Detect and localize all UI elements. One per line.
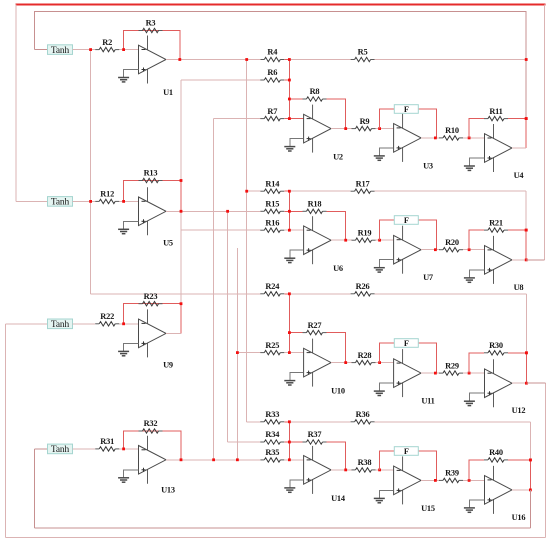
svg-text:R29: R29 <box>445 361 459 370</box>
wire R38 to U15 inverting input <box>376 469 394 471</box>
wire left vertical to Tanh4 <box>33 449 35 528</box>
wire U8 output to right border <box>526 259 545 261</box>
resistor R35 <box>260 448 284 462</box>
wire U15 input to F box <box>380 451 395 470</box>
wire U12 + input to ground <box>469 393 484 401</box>
wire U7 + input to ground <box>379 260 393 268</box>
svg-text:R18: R18 <box>308 200 322 209</box>
svg-text:F: F <box>404 447 409 456</box>
svg-text:U2: U2 <box>333 153 343 162</box>
svg-text:Tanh: Tanh <box>51 46 70 56</box>
svg-text:R40: R40 <box>489 448 503 457</box>
wire left outer vertical to Tanh3 <box>5 324 7 538</box>
svg-text:R17: R17 <box>356 179 370 188</box>
wire to R25 <box>237 352 260 354</box>
wire R17 to right corner <box>375 190 527 192</box>
wire U5 out to R6 <box>181 79 260 81</box>
junctions Tanh1 out / U1 summing <box>89 48 125 51</box>
wire U16 output down to bottom loop <box>529 490 531 528</box>
junctions R30 net / U12 output <box>525 351 528 384</box>
resistor R5 <box>351 48 375 62</box>
wire R13 feedback loop <box>124 181 181 212</box>
wire U2 + input to ground <box>290 139 304 147</box>
wire U6 output to R19 <box>331 239 352 241</box>
wire R6 to summing node <box>284 79 289 81</box>
wire summing node to R36 <box>289 421 350 423</box>
ground U10 <box>284 381 295 385</box>
svg-text:R31: R31 <box>100 437 114 446</box>
wire U10 + input to ground <box>290 373 304 381</box>
ground U7 <box>374 268 385 272</box>
wire R21 to right vertical <box>508 229 526 231</box>
svg-text:U1: U1 <box>163 88 173 97</box>
wire summing to R18 <box>289 210 302 212</box>
wire U15 + input to ground <box>379 490 393 498</box>
resistor R22 <box>95 312 119 326</box>
svg-text:R19: R19 <box>358 228 372 237</box>
resistor R39 <box>439 469 463 483</box>
wire R8 to U2 output <box>327 99 346 129</box>
wire R28 to U11 inverting input <box>376 362 394 364</box>
resistor R21 <box>484 218 508 232</box>
junctions U6 summing node <box>288 190 291 232</box>
svg-text:R16: R16 <box>265 218 279 227</box>
resistor R34 <box>260 430 284 444</box>
svg-text:R8: R8 <box>310 87 320 96</box>
resistor R30 <box>484 341 508 355</box>
svg-text:R7: R7 <box>267 107 277 116</box>
junction U9 summing <box>122 322 125 325</box>
svg-text:R21: R21 <box>489 218 503 227</box>
svg-text:U14: U14 <box>331 494 346 503</box>
junctions U7 output / U8 input <box>434 248 471 251</box>
wire R26 to right corner <box>375 293 527 295</box>
U11 block F <box>394 339 418 348</box>
wire bus Tanh1 output down <box>90 50 92 294</box>
junctions U1 output / R5 net <box>178 58 527 61</box>
svg-text:R23: R23 <box>144 292 158 301</box>
wire bottom inner (U16 out to Tanh4) <box>34 527 530 529</box>
junctions U5 output net / R14 feed <box>180 179 249 213</box>
svg-text:R30: R30 <box>489 341 503 350</box>
svg-text:U7: U7 <box>423 273 433 282</box>
wire U10 output to R28 <box>331 362 352 364</box>
wire U2 output to R9 <box>331 128 352 130</box>
wire R20 to U8 inverting input <box>463 249 485 251</box>
wire bottom border (to Tanh3) <box>6 536 546 538</box>
wire U8 + input to ground <box>469 270 484 278</box>
resistor R7 <box>260 107 284 121</box>
svg-text:U15: U15 <box>421 504 435 513</box>
junctions U3 output / U4 input <box>434 137 471 140</box>
Tanh1 input block <box>48 45 73 56</box>
wire U14 + input to ground <box>290 480 304 488</box>
wire R9 to U3 inverting input <box>376 128 394 130</box>
wire summing to R37 <box>289 441 302 443</box>
wire row1 feedback loop U4 out to Tanh1 <box>34 11 526 59</box>
ground U4 <box>464 166 475 170</box>
wire R30 feedback riser <box>469 353 484 373</box>
resistor R25 <box>260 341 284 355</box>
svg-text:R22: R22 <box>100 312 114 321</box>
resistor R23 <box>139 292 163 306</box>
wire R25 to U10 inverting input <box>284 352 303 354</box>
wire Tanh1 bus to R24 <box>91 293 261 295</box>
wire right vertical to U4 output <box>525 119 527 148</box>
wire U3 + input to ground <box>379 148 393 156</box>
Tanh4 input block <box>48 444 73 455</box>
ground U9 <box>118 351 129 355</box>
junctions Tanh2 out / U5 summing <box>89 200 125 203</box>
wire U9 + input to ground <box>124 343 139 351</box>
wire U7 input to F box <box>380 220 395 240</box>
svg-text:U13: U13 <box>161 486 175 495</box>
wire F box to U3 output <box>418 109 436 138</box>
wire R21 feedback riser <box>469 230 484 250</box>
ground U15 <box>374 498 385 502</box>
junction R11 feedback net <box>525 117 528 120</box>
resistor R24 <box>260 282 284 296</box>
svg-text:U4: U4 <box>514 171 525 180</box>
wire R11 feedback riser <box>469 119 484 138</box>
svg-text:R20: R20 <box>445 238 459 247</box>
op-amp U12 <box>485 359 526 415</box>
wire bus U13 output up to R25 <box>236 248 238 460</box>
wire R32 feedback loop <box>124 431 181 460</box>
wire summing node to R5 <box>289 59 350 61</box>
wire R11 to right vertical <box>508 118 526 120</box>
op-amp U3 <box>394 114 433 170</box>
svg-text:R15: R15 <box>265 200 279 209</box>
wire Tanh2 out to R12 <box>73 200 96 202</box>
wire R33 to summing node <box>284 421 289 423</box>
op-amp U13 <box>139 436 175 495</box>
wire right vertical upper U8 <box>525 191 527 230</box>
wire into Tanh4 <box>34 448 47 450</box>
wire right vertical to U8 output <box>525 230 527 260</box>
wire R22 to U9 inverting input <box>119 323 139 325</box>
resistor R10 <box>439 126 463 140</box>
svg-text:R25: R25 <box>265 341 279 350</box>
wire right vertical upper U4 <box>525 60 527 119</box>
resistor R4 <box>260 48 284 62</box>
wire to R4 <box>247 59 261 61</box>
wire R19 to U7 inverting input <box>376 239 394 241</box>
ground U11 <box>374 391 385 395</box>
ground U12 <box>464 401 475 405</box>
wire R40 feedback riser <box>469 460 484 481</box>
resistor R2 <box>95 38 119 52</box>
svg-text:R37: R37 <box>308 430 322 439</box>
wire U5 + input to ground <box>124 221 139 229</box>
wire bus U1 output down <box>246 60 248 422</box>
svg-text:U9: U9 <box>163 361 173 370</box>
op-amp U10 <box>304 339 345 396</box>
op-amp U4 <box>485 124 525 180</box>
wire U3 input to F box <box>380 109 395 129</box>
wire R30 to right vertical <box>508 352 526 354</box>
wire R10 to U4 inverting input <box>463 137 485 139</box>
resistor R9 <box>352 117 376 131</box>
wire U11 input to F box <box>380 343 395 363</box>
wire U13 output to R35 <box>166 459 260 461</box>
wire R24 to summing node <box>284 293 289 295</box>
svg-text:R9: R9 <box>360 117 370 126</box>
svg-text:U3: U3 <box>423 161 433 170</box>
wire F box to U11 output <box>418 343 436 373</box>
svg-text:R14: R14 <box>265 179 280 188</box>
wire into Tanh2 <box>16 200 48 202</box>
wire R7 to U2 inverting input <box>284 118 303 120</box>
op-amp U11 <box>394 349 435 406</box>
junctions U10 output / U11 input <box>344 361 381 364</box>
resistor R32 <box>139 419 163 433</box>
svg-text:R38: R38 <box>358 458 372 467</box>
svg-text:R2: R2 <box>102 38 112 47</box>
svg-text:R32: R32 <box>144 419 158 428</box>
resistor R38 <box>352 458 376 472</box>
svg-text:Tanh: Tanh <box>51 445 70 455</box>
svg-text:F: F <box>404 339 409 348</box>
wire thick top feedback line (U8 output to Tanh2) <box>15 3 545 5</box>
junctions U6 output / U7 input <box>344 239 381 242</box>
wire R37 to U14 output <box>327 442 346 470</box>
wire U11 output to R29 <box>421 372 440 374</box>
resistor R14 <box>260 179 284 193</box>
wire U12 output <box>512 382 526 384</box>
op-amp U1 <box>139 36 173 98</box>
wire U10 summing node vertical <box>288 294 290 353</box>
wire summing to R8 <box>289 98 302 100</box>
wire U6 summing node vertical <box>288 191 290 230</box>
wire R36 to right corner <box>375 421 531 423</box>
wire U2 summing node vertical <box>288 60 290 119</box>
resistor R27 <box>303 321 327 335</box>
wire into Tanh3 <box>6 323 48 325</box>
ground U1 <box>118 78 129 82</box>
wire to R34 <box>228 441 261 443</box>
wire R14 to summing node <box>284 190 289 192</box>
wire R15 to summing node <box>284 210 289 212</box>
svg-text:R13: R13 <box>144 169 158 178</box>
op-amp U8 <box>485 236 524 292</box>
wire right vertical to U12 output <box>525 353 527 383</box>
wire U6 + input to ground <box>290 250 304 258</box>
wire into Tanh1 <box>34 49 47 51</box>
wire U8 output <box>512 259 526 261</box>
op-amp U14 <box>304 446 346 503</box>
svg-text:U16: U16 <box>512 513 526 522</box>
svg-text:R34: R34 <box>265 430 280 439</box>
svg-text:R33: R33 <box>265 410 279 419</box>
wire U7 output to R20 <box>421 249 440 251</box>
junctions U9 output net / R25 feed <box>180 302 239 354</box>
svg-text:R36: R36 <box>356 410 370 419</box>
junction R30 right <box>525 351 528 354</box>
wire F box to U7 output <box>418 220 436 250</box>
wire R2 to U1 inverting input <box>119 49 139 51</box>
wire U1 output to R4 <box>166 59 260 61</box>
resistor R8 <box>303 87 327 101</box>
wire left border vertical to Tanh2 <box>15 5 17 202</box>
resistor R26 <box>351 282 375 296</box>
ground U3 <box>374 156 385 160</box>
svg-text:U12: U12 <box>512 406 526 415</box>
wire to R7 <box>214 118 261 120</box>
resistor R13 <box>139 169 163 183</box>
resistor R37 <box>303 430 327 444</box>
wire U11 + input to ground <box>379 383 393 391</box>
wire U5 output to R15 <box>166 210 260 212</box>
svg-text:U5: U5 <box>163 239 173 248</box>
svg-text:R26: R26 <box>356 282 370 291</box>
junctions U13 output net <box>180 458 239 461</box>
op-amp U5 <box>139 187 173 247</box>
wire right vertical upper U12 <box>525 294 527 353</box>
wire Tanh1 out to R2 <box>73 49 96 51</box>
svg-text:F: F <box>404 216 409 225</box>
wire R23 feedback loop <box>124 304 181 334</box>
op-amp U2 <box>304 105 343 162</box>
op-amp U15 <box>394 456 435 513</box>
wire U12 output to right border <box>526 382 545 384</box>
wire Tanh3 out to R22 <box>73 323 96 325</box>
resistor R11 <box>484 107 508 121</box>
junctions R21 net / U8 output <box>525 229 528 262</box>
junctions U10 summing node <box>288 292 291 354</box>
junction R40 right <box>529 459 532 462</box>
wire U9 output to bus <box>166 332 181 334</box>
resistor R6 <box>260 68 284 82</box>
ground U2 <box>284 147 295 151</box>
resistor R12 <box>95 190 119 204</box>
resistor R15 <box>260 200 284 214</box>
resistor R16 <box>260 218 284 232</box>
wire R35 to U14 inverting input <box>284 459 303 461</box>
wire U1 bus to R33 <box>247 421 261 423</box>
wire U1 + input to ground <box>124 70 139 78</box>
svg-text:F: F <box>404 105 409 114</box>
svg-text:U10: U10 <box>331 387 345 396</box>
svg-text:R35: R35 <box>265 448 279 457</box>
wire U16 output <box>512 489 530 491</box>
resistor R33 <box>260 410 284 424</box>
wire right border upper (U8 out up) <box>544 5 546 260</box>
wire bus U5/U9 column <box>180 80 182 333</box>
svg-text:Tanh: Tanh <box>51 198 70 208</box>
svg-text:R4: R4 <box>267 48 278 57</box>
wire right vertical upper U16 <box>529 422 531 460</box>
wire summing node to R26 <box>289 293 350 295</box>
U15 block F <box>394 447 418 456</box>
junctions U2 summing node <box>288 58 291 120</box>
svg-text:R3: R3 <box>146 19 156 28</box>
wire R5 to right corner <box>375 59 527 61</box>
wire R12 to U5 inverting input <box>119 200 139 202</box>
ground U5 <box>118 229 129 233</box>
wire U14 summing node vertical <box>288 422 290 460</box>
junction R21 right <box>525 229 528 232</box>
ground U14 <box>284 488 295 492</box>
svg-text:R5: R5 <box>358 48 368 57</box>
wire U3 output to R10 <box>421 137 440 139</box>
resistor R3 <box>139 19 163 33</box>
wire bus U13 output up to R7 <box>213 119 215 460</box>
wire R3 feedback loop <box>124 31 180 60</box>
ground U16 <box>464 508 475 512</box>
wire R18 to U6 output <box>327 211 346 240</box>
ground U8 <box>464 278 475 282</box>
resistor R40 <box>484 448 508 462</box>
svg-text:R39: R39 <box>445 469 459 478</box>
wire bus to R14 <box>247 190 261 192</box>
svg-text:R24: R24 <box>265 282 280 291</box>
ground U6 <box>284 258 295 262</box>
wire U14 output to R38 <box>331 469 352 471</box>
junctions U14 summing node <box>288 420 291 461</box>
wire R34 to summing node <box>284 441 289 443</box>
U3 block F <box>394 105 418 114</box>
wire R39 to U16 inverting input <box>463 479 485 481</box>
resistor R28 <box>352 351 376 365</box>
junctions U15 output / U16 input <box>434 479 471 482</box>
svg-text:R28: R28 <box>358 351 372 360</box>
svg-text:U8: U8 <box>514 283 524 292</box>
wire R29 to U12 inverting input <box>463 372 485 374</box>
op-amp U6 <box>304 216 343 273</box>
wire U4 + input to ground <box>469 158 484 166</box>
svg-text:R27: R27 <box>308 321 322 330</box>
wire summing node to R17 <box>289 190 350 192</box>
svg-text:R6: R6 <box>267 68 277 77</box>
wire U15 output to R39 <box>421 479 440 481</box>
op-amp U16 <box>485 466 526 522</box>
junction U13 summing <box>122 448 125 451</box>
U7 block F <box>394 216 418 225</box>
wire U9 out to R16 <box>181 229 260 231</box>
wire R16 to U6 inverting input <box>284 229 303 231</box>
wire R4 to summing node <box>284 59 289 61</box>
junctions U11 output / U12 input <box>434 372 471 375</box>
resistor R29 <box>439 361 463 375</box>
junctions U2 output / U3 input <box>344 127 381 130</box>
svg-text:U6: U6 <box>333 264 343 273</box>
wire R31 to U13 inverting input <box>119 448 139 450</box>
wire U16 + input to ground <box>469 500 484 508</box>
svg-text:R12: R12 <box>100 190 114 199</box>
junctions U14 output / U15 input <box>344 469 381 472</box>
wire U13 + input to ground <box>124 470 139 478</box>
wire R40 to right vertical <box>508 459 530 461</box>
wire R27 to U10 output <box>327 333 346 363</box>
wire right border lower (U12 out down) <box>545 383 547 537</box>
svg-text:Tanh: Tanh <box>51 320 70 330</box>
op-amp U9 <box>139 309 173 369</box>
resistor R36 <box>351 410 375 424</box>
Tanh3 input block <box>48 319 73 330</box>
svg-text:R11: R11 <box>489 107 502 116</box>
wire summing to R27 <box>289 332 302 334</box>
junctions R40 net / U16 output <box>529 459 532 492</box>
ground U13 <box>118 478 129 482</box>
resistor R20 <box>439 238 463 252</box>
resistor R31 <box>95 437 119 451</box>
wire U4 output <box>512 147 526 149</box>
resistor R19 <box>352 228 376 242</box>
resistor R17 <box>351 179 375 193</box>
junction R11 right <box>525 117 528 120</box>
wire Tanh4 out to R31 <box>73 448 96 450</box>
